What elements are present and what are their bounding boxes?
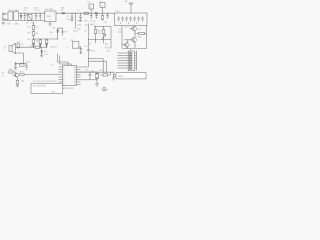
resistor R15 xyxy=(20,64,25,66)
pin 10 xyxy=(77,69,81,71)
connector SIL K5 xyxy=(128,51,134,71)
svg-text:P1: P1 xyxy=(89,44,92,46)
resistor R10 xyxy=(94,26,96,43)
svg-text:10u: 10u xyxy=(67,19,70,21)
svg-text:LS: LS xyxy=(4,47,7,49)
svg-text:in: in xyxy=(2,76,4,78)
svg-text:AT89C2051: AT89C2051 xyxy=(63,87,75,90)
svg-text:3: 3 xyxy=(63,72,65,74)
svg-text:C5: C5 xyxy=(67,16,70,18)
svg-text:1: 1 xyxy=(4,50,6,52)
resistor R7 xyxy=(45,39,47,43)
ground xyxy=(112,73,115,81)
svg-text:K5: K5 xyxy=(126,48,129,50)
relay RL1 xyxy=(72,42,79,49)
resistor R12 xyxy=(135,32,147,34)
wire y58.5 xyxy=(89,59,104,73)
svg-text:D8: D8 xyxy=(44,51,47,53)
wire right rail right xyxy=(146,26,148,49)
svg-text:R8: R8 xyxy=(53,28,56,30)
svg-text:C1: C1 xyxy=(24,10,27,12)
svg-text:5V1: 5V1 xyxy=(44,54,49,56)
svg-text:S2 MODE SEL: S2 MODE SEL xyxy=(33,86,48,88)
svg-text:4k7: 4k7 xyxy=(138,29,142,31)
svg-text:+9V: +9V xyxy=(31,23,35,25)
resistor R19 xyxy=(100,72,110,76)
pin 7 xyxy=(59,81,63,83)
svg-text:LM16: LM16 xyxy=(118,76,124,78)
transistor T6 xyxy=(13,72,19,80)
resistor R5 xyxy=(32,40,35,45)
svg-text:K4: K4 xyxy=(2,73,5,75)
svg-text:R5: R5 xyxy=(28,39,31,41)
capacitor C9 xyxy=(106,13,108,19)
coil F1 xyxy=(118,16,119,22)
capacitor C14 xyxy=(14,62,17,70)
svg-text:R3: R3 xyxy=(28,26,31,28)
svg-text:1k: 1k xyxy=(36,27,39,29)
pin 13 xyxy=(77,76,81,78)
ground xyxy=(2,23,6,25)
resistor R14 xyxy=(35,46,46,48)
svg-text:1k: 1k xyxy=(21,44,24,46)
svg-text:10u: 10u xyxy=(77,29,80,31)
svg-text:R2: R2 xyxy=(105,22,108,24)
speaker LS1 xyxy=(9,43,16,53)
resistor R2 xyxy=(102,13,104,21)
node +5V xyxy=(75,13,77,26)
node c xyxy=(136,23,137,24)
svg-text:D1: D1 xyxy=(16,10,19,12)
capacitor C13 xyxy=(58,28,64,36)
svg-text:50Hz: 50Hz xyxy=(14,24,19,26)
wire vert to IC a xyxy=(58,54,68,66)
svg-text:10k: 10k xyxy=(98,33,102,35)
pin k4 xyxy=(118,60,133,62)
svg-text:X2: X2 xyxy=(51,64,54,66)
capacitor C1 xyxy=(24,13,28,20)
wire speaker bottom xyxy=(16,53,24,63)
LCD module xyxy=(116,73,146,79)
pin k2 xyxy=(118,55,133,57)
pin 1 xyxy=(59,66,63,68)
resistor R4 xyxy=(32,32,35,40)
wire right mid bottom xyxy=(89,39,112,41)
svg-text:100n: 100n xyxy=(91,50,96,52)
node b xyxy=(128,23,129,24)
resistor R17 xyxy=(20,73,24,75)
svg-text:T6: T6 xyxy=(14,69,17,71)
coil F5 xyxy=(134,16,135,22)
svg-text:100n: 100n xyxy=(34,8,39,10)
RF module MOD1 xyxy=(115,13,148,26)
pin 3 xyxy=(59,71,63,73)
svg-text:1n: 1n xyxy=(85,31,87,33)
wire xyxy=(130,49,132,51)
wire top rail xyxy=(19,12,44,14)
regulator IC1 xyxy=(45,11,57,22)
svg-text:RL1: RL1 xyxy=(71,40,76,42)
pin k6 xyxy=(118,65,133,67)
svg-text:T3: T3 xyxy=(127,26,130,28)
transformer TR1 xyxy=(8,12,19,20)
capacitor C15 xyxy=(25,63,28,69)
connector K1 mains xyxy=(3,13,8,21)
svg-text:C17: C17 xyxy=(107,48,112,50)
wire xyxy=(110,26,112,48)
wire bottom bus xyxy=(77,71,114,73)
capacitor F2 xyxy=(122,16,123,22)
svg-text:470u: 470u xyxy=(24,8,29,10)
svg-text:D7: D7 xyxy=(64,32,67,34)
diode D4 xyxy=(33,44,35,47)
resistor R18 xyxy=(16,80,19,87)
pin 8 xyxy=(59,84,63,86)
svg-text:100n: 100n xyxy=(73,31,78,33)
wire right mid top xyxy=(94,25,111,27)
resistor R6 xyxy=(39,39,41,43)
svg-text:3: 3 xyxy=(53,13,55,15)
wire bottom rail xyxy=(5,20,45,22)
svg-text:7805: 7805 xyxy=(47,16,52,18)
svg-text:R9: R9 xyxy=(85,21,88,23)
junction dots xyxy=(20,12,131,80)
ground pin IC1 xyxy=(48,22,51,27)
relay box K2 xyxy=(89,4,94,9)
svg-text:IC1 7805: IC1 7805 xyxy=(45,9,54,11)
diode D2 xyxy=(62,12,64,14)
pin 4 xyxy=(24,74,62,76)
transistor T5 xyxy=(122,40,129,49)
capacitor C8 xyxy=(95,13,97,19)
svg-text:re: re xyxy=(67,45,70,48)
capacitor F4 xyxy=(130,16,131,22)
IC2 microcontroller xyxy=(63,66,77,86)
wire y61.2 xyxy=(89,61,107,72)
wire main 5V rail xyxy=(56,12,115,14)
svg-text:D4: D4 xyxy=(36,40,39,42)
svg-text:R12: R12 xyxy=(138,37,143,39)
pin 11 xyxy=(77,71,98,73)
svg-text:L1: L1 xyxy=(78,10,81,12)
wire vertical x88.5 xyxy=(88,24,90,62)
bridge B1 xyxy=(28,15,32,21)
svg-text:R10: R10 xyxy=(98,30,103,32)
pin stubs right xyxy=(135,53,137,68)
coil F3 xyxy=(126,16,127,22)
pin 2 xyxy=(59,69,63,71)
svg-text:1: 1 xyxy=(90,7,92,9)
resistor R3 xyxy=(32,22,35,32)
pin 16 xyxy=(77,84,81,86)
wire right rail left xyxy=(121,26,123,49)
coil F7 xyxy=(142,16,143,22)
svg-text:10k: 10k xyxy=(21,81,25,83)
svg-text:C: C xyxy=(10,61,12,63)
pin 14 xyxy=(77,79,91,81)
svg-text:50k: 50k xyxy=(105,44,109,46)
pin k7 xyxy=(118,67,133,69)
ground xyxy=(95,80,99,86)
wire bottom right xyxy=(122,47,147,49)
pin 5 xyxy=(59,76,63,78)
wire right of SIL xyxy=(136,50,138,70)
diode D6 xyxy=(46,43,48,48)
svg-text:1: 1 xyxy=(45,13,47,15)
svg-text:10k: 10k xyxy=(85,25,89,27)
relay box K3 xyxy=(100,3,105,8)
transistor T3 xyxy=(130,26,137,38)
svg-text:10k: 10k xyxy=(50,32,54,34)
svg-text:B1: B1 xyxy=(27,23,30,25)
capacitor C3 xyxy=(39,13,41,20)
title box xyxy=(31,84,63,94)
wire xyxy=(90,9,92,13)
svg-text:C2 C3: C2 C3 xyxy=(34,10,41,12)
capacitor C11 xyxy=(79,46,82,54)
pin k1 xyxy=(118,52,133,54)
svg-text:R11: R11 xyxy=(91,24,95,26)
svg-text:C7 C8: C7 C8 xyxy=(90,21,97,23)
diode D8 zener xyxy=(40,47,43,58)
node a xyxy=(120,23,121,24)
svg-text:C16: C16 xyxy=(84,46,89,48)
svg-text:BC547: BC547 xyxy=(51,46,58,48)
svg-text:P1.0 P1.1 P1.2 P1.3 P3.0: P1.0 P1.1 P1.2 P1.3 P3.0 xyxy=(33,81,57,83)
svg-text:10u: 10u xyxy=(107,50,110,52)
pin stubs LCD xyxy=(113,74,116,76)
wire vert to IC b xyxy=(60,56,72,66)
svg-text:1N4: 1N4 xyxy=(61,8,66,10)
pin k5 xyxy=(118,62,133,64)
resistor R16 xyxy=(9,71,13,73)
svg-text:100n: 100n xyxy=(77,25,82,27)
svg-text:A1: A1 xyxy=(125,0,128,3)
capacitor C2 xyxy=(35,13,37,20)
pin 12 xyxy=(77,74,81,76)
capacitor C7 xyxy=(90,13,92,19)
svg-text:D2: D2 xyxy=(61,10,64,12)
svg-text:5V: 5V xyxy=(113,72,116,74)
svg-text:2: 2 xyxy=(49,19,51,21)
svg-text:R15: R15 xyxy=(27,61,32,63)
resistor R13 xyxy=(17,44,19,48)
wire cluster xyxy=(16,62,27,64)
trimmer P1 xyxy=(102,26,106,43)
crystal X1 xyxy=(95,72,99,80)
capacitor C5 xyxy=(70,13,73,22)
inductor L1 xyxy=(84,12,89,14)
svg-text:230V: 230V xyxy=(6,24,11,26)
svg-text:R4: R4 xyxy=(28,33,31,35)
wire xyxy=(102,8,104,14)
diode D3 xyxy=(95,12,97,14)
diode D1 xyxy=(20,13,22,20)
pin k3 xyxy=(118,57,133,59)
svg-text:out: out xyxy=(118,27,121,30)
capacitor F6 xyxy=(138,16,139,22)
svg-text:1: 1 xyxy=(107,89,109,91)
svg-text:T2: T2 xyxy=(63,38,66,40)
node bubble xyxy=(103,88,106,91)
diode D5 xyxy=(39,43,41,48)
pin 9 xyxy=(77,61,89,67)
capacitor C18 xyxy=(89,72,92,80)
svg-text:2: 2 xyxy=(101,5,103,7)
svg-text:gnd: gnd xyxy=(118,31,121,33)
antenna ANT1 xyxy=(129,3,134,13)
wire speaker top xyxy=(16,46,35,48)
pin 6 xyxy=(59,79,63,81)
wire xyxy=(90,79,97,81)
pin 15 xyxy=(77,81,81,83)
capacitor C6 xyxy=(79,13,82,21)
svg-text:K2: K2 xyxy=(88,2,91,4)
wire mid xyxy=(34,38,59,40)
svg-text:1k: 1k xyxy=(36,33,39,35)
transistor T4 xyxy=(125,37,137,48)
diode D7 xyxy=(57,28,59,39)
svg-text:C12: C12 xyxy=(85,70,90,72)
